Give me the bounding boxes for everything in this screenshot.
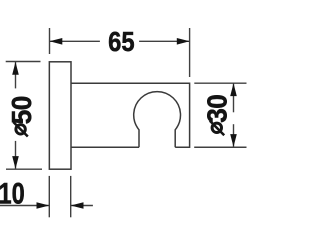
- svg-text:50: 50: [6, 96, 37, 124]
- svg-text:65: 65: [108, 25, 134, 57]
- svg-text:10: 10: [0, 177, 25, 210]
- svg-text:30: 30: [202, 95, 233, 123]
